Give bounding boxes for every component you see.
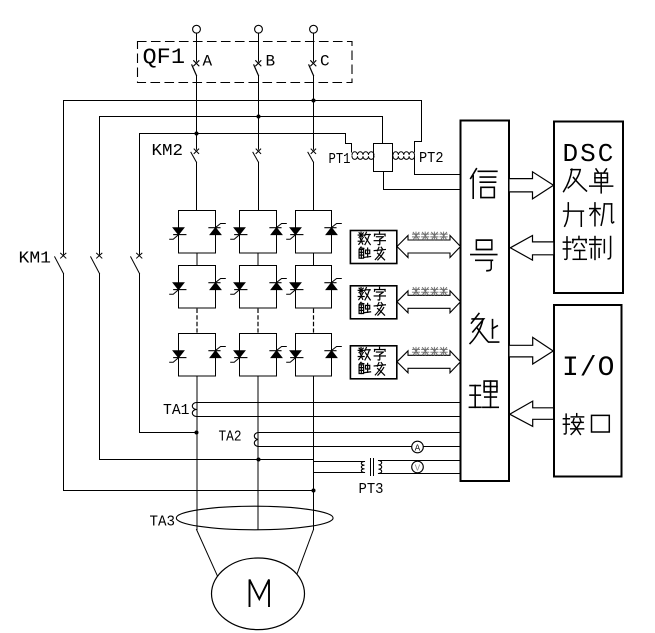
svg-text:PT1: PT1 — [329, 152, 351, 168]
svg-text:KM2: KM2 — [152, 141, 184, 160]
svg-text:TA3: TA3 — [150, 514, 176, 530]
svg-text:V: V — [415, 464, 421, 474]
svg-text:A: A — [415, 444, 421, 454]
svg-text:B: B — [266, 52, 276, 70]
svg-text:I/O: I/O — [562, 353, 615, 384]
svg-text:DSC: DSC — [563, 139, 616, 169]
svg-text:KM1: KM1 — [19, 249, 52, 268]
svg-text:TA2: TA2 — [219, 430, 242, 446]
svg-text:C: C — [320, 52, 330, 70]
svg-text:TA1: TA1 — [163, 403, 190, 419]
svg-text:PT3: PT3 — [359, 482, 384, 498]
svg-text:PT2: PT2 — [419, 151, 444, 167]
svg-text:QF1: QF1 — [143, 45, 186, 70]
svg-text:A: A — [203, 52, 213, 70]
